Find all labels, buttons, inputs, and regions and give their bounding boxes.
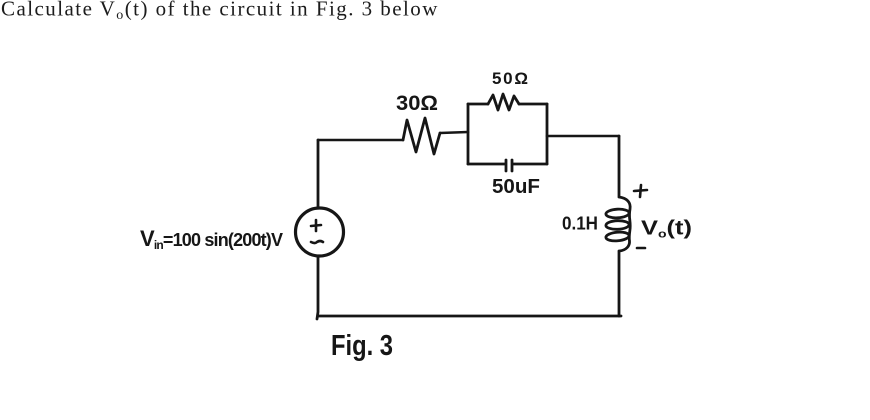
svg-text:Calculate Vo(t) of the circuit: Calculate Vo(t) of the circuit in Fig. 3…: [1, 0, 439, 23]
svg-text:Vin=100 sin(200t)V: Vin=100 sin(200t)V: [140, 226, 283, 252]
svg-text:Vo(t): Vo(t): [641, 218, 692, 241]
parallel block right edge wire: [546, 104, 549, 164]
minus sign output node: [637, 247, 645, 250]
svg-text:Fig. 3: Fig. 3: [331, 330, 393, 362]
label 50Ω: [492, 69, 528, 88]
wire right vertical upper: [618, 136, 621, 196]
voltage source plus mark: [311, 220, 321, 231]
label Fig. 3: [331, 330, 393, 362]
inductor L1: [606, 197, 631, 251]
capacitor C1: [506, 160, 512, 171]
wire resistor to block: [440, 132, 468, 133]
svg-text:30Ω: 30Ω: [396, 92, 438, 115]
label 50uF: [492, 176, 540, 198]
voltage source V1: [296, 208, 344, 256]
wire block top edge left segment: [468, 103, 488, 106]
wire block bottom edge left segment: [468, 163, 505, 166]
svg-text:50Ω: 50Ω: [492, 69, 528, 88]
wire top-left horizontal: [318, 139, 403, 142]
parallel block left edge wire: [467, 104, 470, 164]
resistor R2: [488, 94, 519, 110]
plus sign output node: [634, 185, 647, 197]
label 0.1H: [562, 214, 598, 234]
title text: [1, 0, 439, 23]
label Vin=100 sin(200t)V: [140, 226, 283, 252]
wire block bottom edge right segment: [513, 163, 547, 166]
wire left vertical upper: [317, 140, 320, 208]
svg-text:0.1H: 0.1H: [562, 214, 598, 234]
wire block top edge right segment: [519, 103, 547, 106]
svg-text:50uF: 50uF: [492, 176, 540, 198]
resistor R1: [403, 118, 440, 154]
wire left vertical lower: [317, 256, 318, 319]
label Vo(t): [641, 218, 692, 241]
wire block to top-right corner: [547, 135, 619, 138]
wire right vertical lower: [618, 252, 621, 316]
voltage source minus mark: [311, 241, 323, 243]
wire bottom: [318, 315, 621, 318]
label 30Ω: [396, 92, 438, 115]
